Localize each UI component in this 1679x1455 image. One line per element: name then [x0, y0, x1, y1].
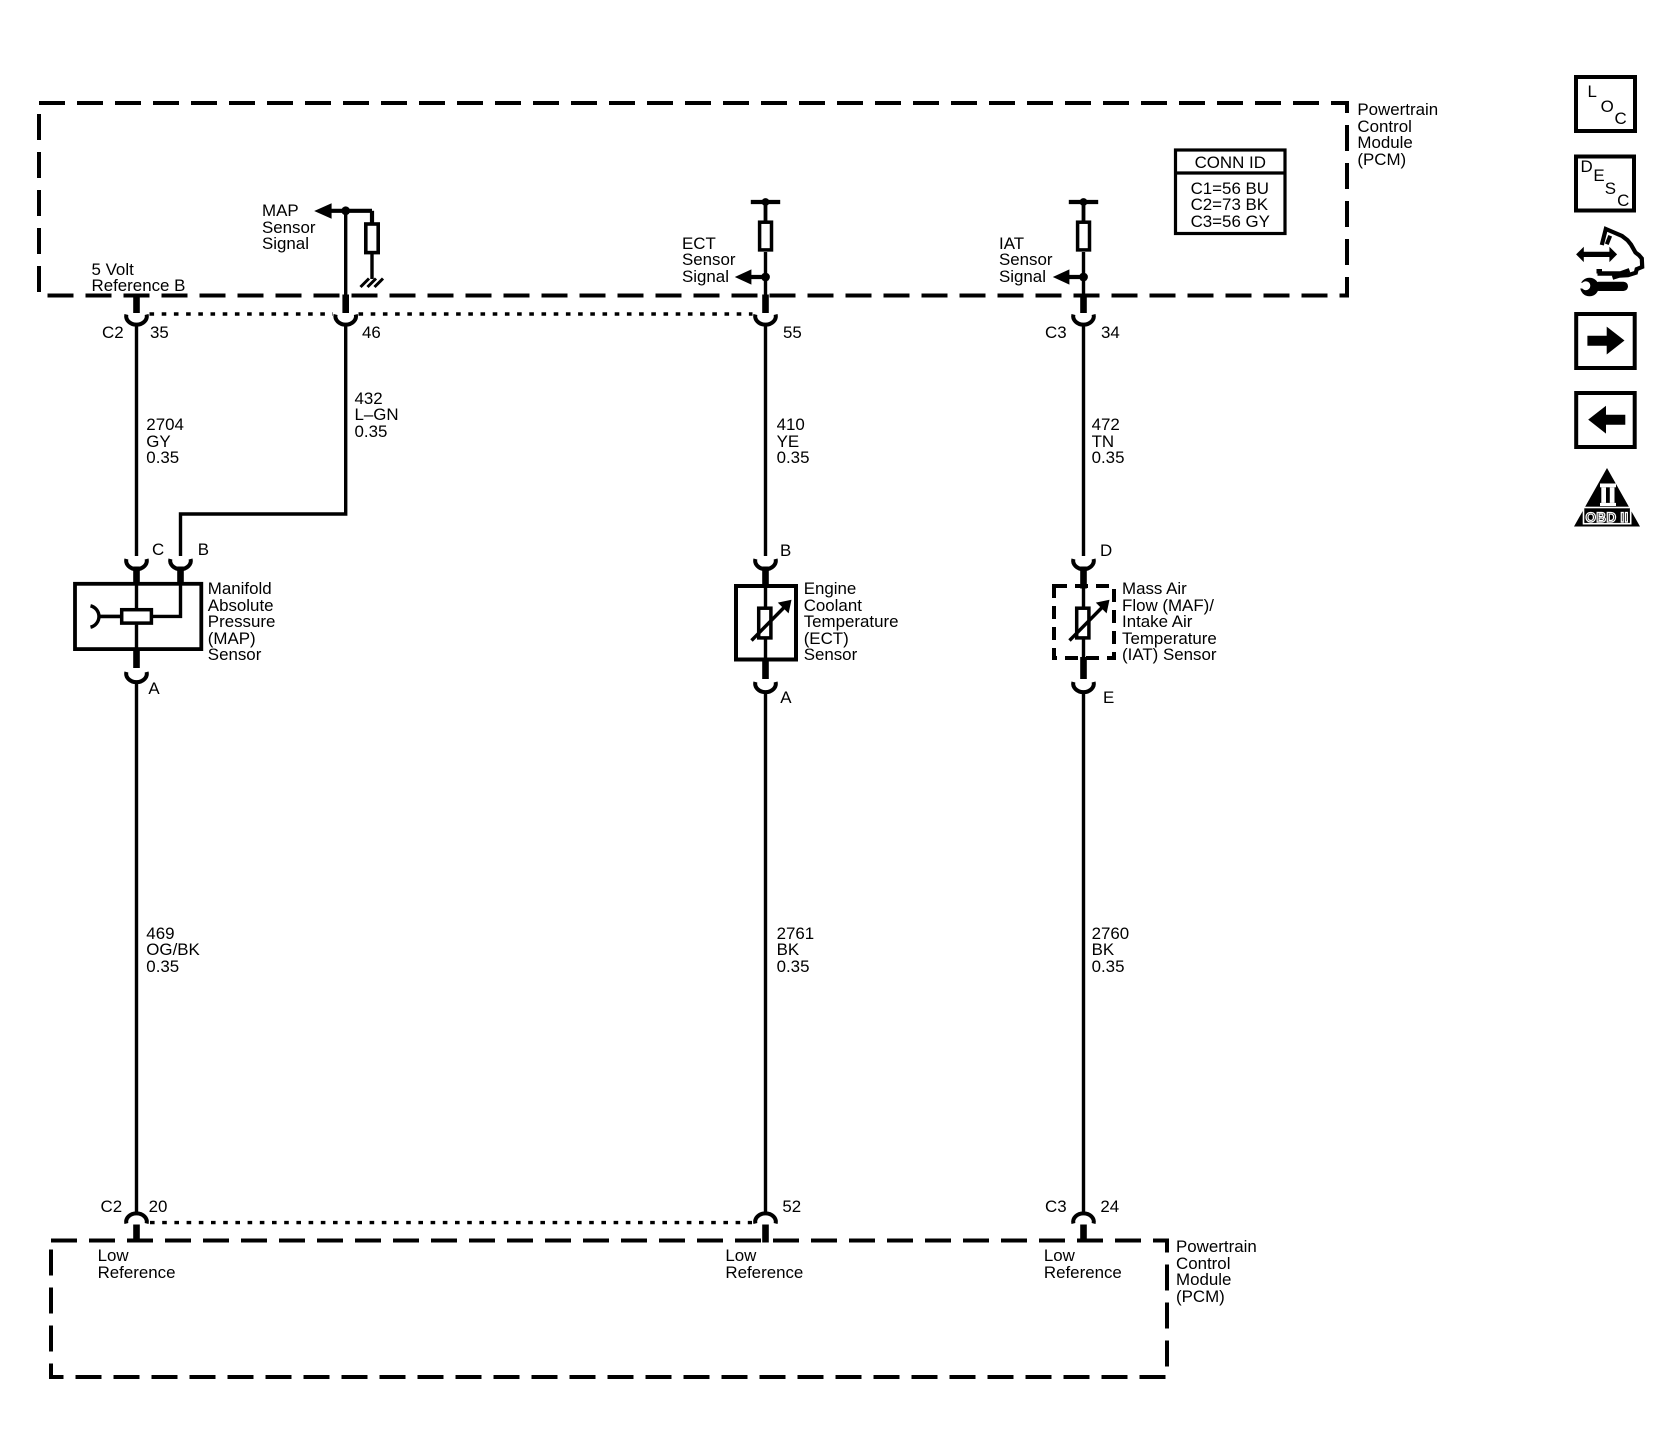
- label: Mass Air Flow (MAF) Intake Air Temperature (IAT) Sensor: [1122, 581, 1217, 664]
- icon letters: D E S C: [1581, 159, 1593, 176]
- connector stub 52: [762, 1225, 769, 1243]
- connector stub MAP B: [177, 567, 184, 584]
- wire: pin 46 vertical inside PCM: [344, 211, 347, 296]
- icon text: OBD II: [1584, 510, 1631, 525]
- T-bar: ECT pull-up top: [751, 198, 780, 206]
- connector stub MAP C: [133, 567, 140, 584]
- connector arc MAP pin B: [170, 559, 191, 569]
- resistor: MAP element: [122, 610, 152, 623]
- icon: forward arrow button: [1576, 314, 1635, 368]
- MAF/IAT sensor box (dashed): [1054, 586, 1114, 658]
- wire: IAT bar to resistor: [1082, 202, 1086, 221]
- MAP sensor box: [75, 584, 201, 649]
- connector stub C2-35: [133, 295, 140, 314]
- wire: IAT thermistor to pin E: [1082, 640, 1085, 659]
- wire: MAP element to pin A: [135, 625, 138, 651]
- wire 2704 GY (pin 35 to MAP C): [135, 324, 138, 556]
- icon: hand outline: [1597, 229, 1643, 278]
- label: pin 46: [362, 325, 381, 342]
- arrow: MAP sensor signal: [314, 203, 331, 219]
- connector stub 55: [762, 295, 769, 314]
- PCM module box (bottom): [51, 1241, 1167, 1378]
- connector stub C3-24: [1080, 1225, 1087, 1243]
- label: pin 55: [783, 325, 802, 342]
- label: IAT Sensor Signal: [999, 236, 1053, 286]
- wire 469 OG/BK (MAP A to pin 20): [135, 681, 138, 1213]
- label: pin 35: [150, 325, 169, 342]
- connector arc IAT pin D: [1073, 559, 1094, 569]
- label: pin 34: [1101, 325, 1120, 342]
- wire 432 L-GN (pin 46 to MAP B): [181, 324, 346, 556]
- label: Powertrain Control Module (PCM) top: [1357, 102, 1438, 168]
- label: wire 2704 GY 0.35: [146, 417, 184, 467]
- connector arc pin 46: [335, 315, 356, 325]
- wire: ECT B inside box: [764, 584, 767, 607]
- wire: MAP sensor signal horizontal (pin 46 branch): [331, 209, 372, 213]
- connector arc C3 pin 24 (dome): [1073, 1213, 1094, 1223]
- wire: branch down to pull-up resistor: [370, 211, 374, 223]
- icon: hand double arrow: [1576, 247, 1617, 262]
- wire: IAT D inside box: [1082, 586, 1085, 607]
- connector arc MAP pin C: [126, 559, 147, 569]
- wire: ECT thermistor to pin A: [764, 640, 767, 662]
- wire: ECT resistor to pin 55: [764, 252, 767, 296]
- label: C2 (bottom): [101, 1199, 123, 1216]
- ECT sensor box: [736, 586, 796, 660]
- connector arc MAP pin A: [126, 672, 147, 682]
- label: C3 (bottom): [1045, 1199, 1067, 1216]
- wire: IAT resistor to pin 34: [1082, 252, 1085, 296]
- resistor: IAT pull-up (in PCM): [1078, 222, 1090, 250]
- label: Manifold Absolute Pressure (MAP) Sensor: [208, 581, 276, 664]
- connector stub ECT B: [762, 567, 769, 585]
- label: wire 469 OG/BK 0.35: [146, 926, 200, 976]
- icon: wrench: [1576, 278, 1629, 297]
- label: pin D (IAT): [1100, 543, 1112, 560]
- MAP pressure port symbol: [91, 606, 121, 627]
- label: pin C: [152, 542, 164, 559]
- label: pin A (ECT): [780, 690, 791, 707]
- connector arc pin 55: [755, 315, 776, 325]
- connector stub MAP A top: [133, 650, 140, 668]
- label: wire 432 L-GN 0.35: [355, 391, 399, 441]
- label: 5 Volt Reference B: [92, 262, 186, 295]
- icon letters: L O C: [1588, 84, 1597, 101]
- label: pin 20: [149, 1199, 168, 1216]
- label: wire 472 TN 0.35: [1092, 417, 1125, 467]
- wire: resistor to ground: [370, 254, 373, 279]
- label: pin B (MAP): [198, 542, 209, 559]
- wire 472 TN (pin 34 to IAT D): [1082, 324, 1085, 556]
- label: MAP Sensor Signal: [262, 203, 316, 253]
- ground (chassis): [361, 279, 384, 288]
- label: CONN ID header: [1176, 155, 1286, 172]
- arrow: ECT sensor signal: [735, 269, 766, 284]
- resistor: MAP signal pull-up (in PCM): [366, 224, 378, 253]
- CONN ID table: [1176, 150, 1286, 234]
- icon: LOC button box: [1576, 77, 1635, 131]
- label: Powertrain Control Module (PCM) bottom: [1176, 1239, 1257, 1305]
- connector stub C2-20: [133, 1225, 140, 1243]
- dotted harness line (46 to 55): [359, 312, 753, 315]
- T-bar: IAT pull-up top: [1069, 198, 1098, 206]
- resistor: IAT thermistor (variable): [1070, 600, 1110, 641]
- label: Low Reference (MAP): [98, 1248, 176, 1281]
- label: CONN ID rows: [1191, 181, 1270, 231]
- connector stub 46: [342, 295, 349, 314]
- label: pin A (MAP): [148, 681, 159, 698]
- wire 2760 BK (IAT E to pin 24): [1082, 691, 1085, 1213]
- icon: DESC button box: [1576, 157, 1634, 211]
- label: pin 52: [782, 1199, 801, 1216]
- dotted harness line (bottom, 20 to 52): [150, 1221, 752, 1224]
- label: pin B (ECT): [780, 543, 791, 560]
- wire: MAP C inside box: [135, 584, 138, 609]
- label: ECT Sensor Signal: [682, 236, 736, 286]
- dotted harness line (C2 top, 35 to 46): [150, 312, 334, 315]
- label: Engine Coolant Temperature (ECT) Sensor: [804, 581, 899, 664]
- label: Low Reference (ECT): [725, 1248, 803, 1281]
- wire: ECT bar to resistor: [764, 202, 768, 221]
- arrow: IAT sensor signal: [1053, 269, 1084, 284]
- connector stub ECT A top: [762, 660, 769, 679]
- wire 410 YE (pin 55 to ECT B): [764, 324, 767, 556]
- icon: OBD II triangle: [1574, 468, 1640, 527]
- label: C2 (top): [102, 325, 124, 342]
- wire 2761 BK (ECT A to pin 52): [764, 691, 767, 1213]
- label: Low Reference (IAT): [1044, 1248, 1122, 1281]
- connector stub IAT D: [1080, 567, 1087, 589]
- connector stub IAT E top: [1080, 657, 1087, 679]
- label: wire 2760 BK 0.35: [1092, 926, 1130, 976]
- connector arc C2 pin 20 (dome): [126, 1213, 147, 1223]
- connector arc ECT pin B: [755, 559, 776, 569]
- connector stub C3-34: [1080, 295, 1087, 314]
- connector arc pin 52 (dome): [755, 1213, 776, 1223]
- connector arc ECT pin A: [755, 682, 776, 692]
- label: pin 24: [1100, 1199, 1119, 1216]
- resistor: ECT thermistor (variable): [752, 600, 792, 641]
- label: wire 2761 BK 0.35: [777, 926, 815, 976]
- icon: back arrow button: [1576, 393, 1635, 447]
- PCM module box (top): [39, 103, 1347, 296]
- junction node IAT signal: [1079, 273, 1088, 282]
- wire: MAP B inside box: [153, 584, 181, 617]
- connector arc C2 pin 35: [126, 315, 147, 325]
- label: wire 410 YE 0.35: [777, 417, 810, 467]
- resistor: ECT pull-up (in PCM): [760, 222, 772, 250]
- label: pin E (IAT): [1103, 690, 1114, 707]
- junction node ECT signal: [761, 273, 770, 282]
- junction node at pin 46 wire: [341, 206, 350, 215]
- connector arc IAT pin E: [1073, 682, 1094, 692]
- label: C3 (top): [1045, 325, 1067, 342]
- connector arc C3 pin 34: [1073, 315, 1094, 325]
